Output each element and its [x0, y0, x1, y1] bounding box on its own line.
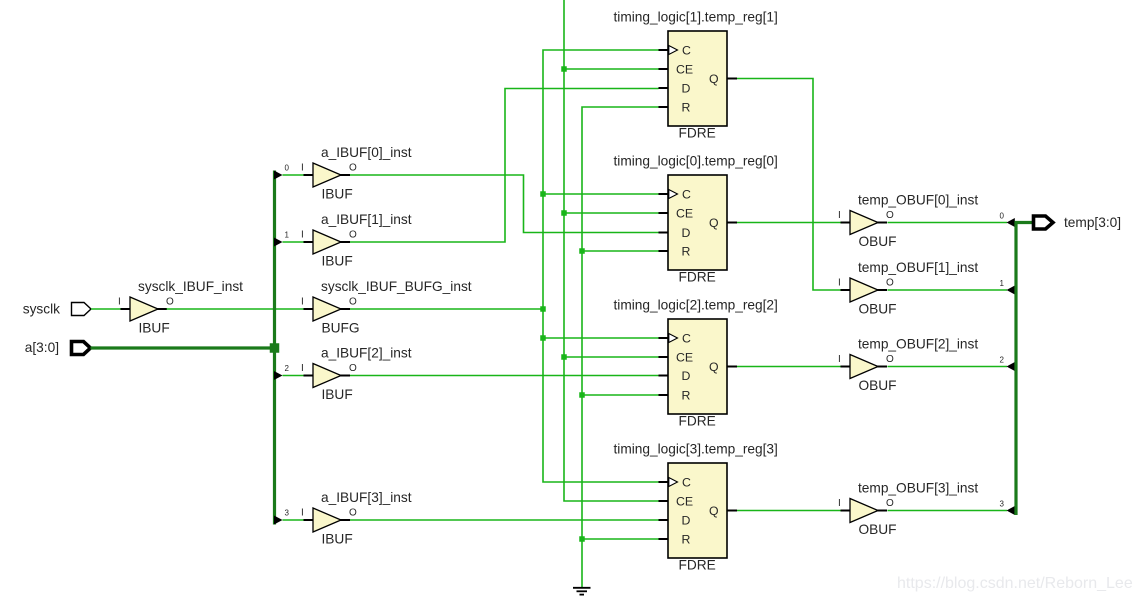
svg-text:timing_logic[2].temp_reg[2]: timing_logic[2].temp_reg[2]	[614, 298, 778, 313]
svg-text:temp_OBUF[3]_inst: temp_OBUF[3]_inst	[858, 481, 978, 496]
svg-text:FDRE: FDRE	[679, 414, 716, 429]
svg-text:D: D	[682, 514, 691, 528]
svg-text:Q: Q	[709, 360, 719, 374]
wire OBUF[2] output to temp bus tap	[888, 366, 1008, 368]
svg-text:FDRE: FDRE	[679, 558, 716, 573]
svg-text:D: D	[682, 82, 691, 96]
junction R3	[579, 536, 585, 542]
buffer temp_OBUF[0]_inst (OBUF)	[838, 193, 978, 250]
flip-flop timing_logic[1].temp_reg[1] (FDRE)	[614, 10, 778, 141]
svg-text:O: O	[349, 163, 357, 174]
svg-text:sysclk_IBUF_inst: sysclk_IBUF_inst	[138, 279, 243, 294]
svg-text:D: D	[682, 226, 691, 240]
wire a[0] tap to IBUF input	[283, 174, 304, 176]
svg-text:Q: Q	[709, 216, 719, 230]
buffer a_IBUF[0]_inst (IBUF)	[301, 145, 412, 202]
svg-text:R: R	[682, 533, 691, 547]
buffer a_IBUF[2]_inst (IBUF)	[301, 346, 412, 403]
wire BUFG output to clock net	[350, 308, 543, 310]
wire a_IBUF[1] output to D of temp_reg[1]	[350, 89, 659, 243]
wire R branch to R of temp_reg[3]	[582, 538, 659, 540]
svg-text:O: O	[349, 508, 357, 519]
svg-text:O: O	[349, 297, 357, 308]
svg-text:0: 0	[285, 164, 290, 173]
svg-text:I: I	[118, 297, 121, 308]
junction CE1	[561, 66, 567, 72]
svg-text:I: I	[301, 508, 304, 519]
wire R net vertical to ground	[582, 107, 659, 587]
svg-text:BUFG: BUFG	[322, 321, 360, 336]
svg-text:a_IBUF[2]_inst: a_IBUF[2]_inst	[321, 346, 412, 361]
buffer temp_OBUF[2]_inst (OBUF)	[838, 337, 978, 394]
flip-flop timing_logic[0].temp_reg[0] (FDRE)	[614, 154, 778, 285]
wire sysclk port to sysclk_IBUF input	[91, 308, 122, 310]
svg-text:I: I	[838, 354, 841, 365]
junction CE2	[561, 354, 567, 360]
watermark	[897, 575, 1133, 592]
svg-text:OBUF: OBUF	[859, 522, 897, 537]
ground symbol	[573, 588, 591, 595]
svg-text:a_IBUF[0]_inst: a_IBUF[0]_inst	[321, 145, 412, 160]
svg-text:temp_OBUF[2]_inst: temp_OBUF[2]_inst	[858, 337, 978, 352]
svg-text:a[3:0]: a[3:0]	[25, 340, 59, 355]
svg-text:O: O	[886, 354, 894, 365]
svg-text:C: C	[682, 332, 691, 346]
svg-text:O: O	[886, 210, 894, 221]
svg-text:I: I	[301, 297, 304, 308]
svg-text:O: O	[886, 278, 894, 289]
svg-text:temp_OBUF[0]_inst: temp_OBUF[0]_inst	[858, 193, 978, 208]
buffer sysclk_IBUF_inst (IBUF)	[118, 279, 243, 336]
svg-text:1: 1	[285, 231, 290, 240]
wire CE branch to CE of temp_reg[0]	[564, 212, 659, 214]
svg-text:CE: CE	[676, 351, 693, 365]
buffer a_IBUF[1]_inst (IBUF)	[301, 212, 412, 269]
svg-text:temp_OBUF[1]_inst: temp_OBUF[1]_inst	[858, 260, 978, 275]
buffer temp_OBUF[1]_inst (OBUF)	[838, 260, 978, 317]
buffer temp_OBUF[3]_inst (OBUF)	[838, 481, 978, 538]
svg-text:FDRE: FDRE	[679, 126, 716, 141]
bus tap a[3]	[274, 509, 290, 525]
output port temp[3:0]	[1034, 215, 1122, 230]
bus temp[3:0] horizontal to port	[1015, 221, 1034, 224]
wire Q of temp_reg[3] to OBUF[3] input	[737, 510, 841, 512]
svg-text:timing_logic[0].temp_reg[0]: timing_logic[0].temp_reg[0]	[614, 154, 778, 169]
buffer a_IBUF[3]_inst (IBUF)	[301, 490, 412, 547]
svg-text:OBUF: OBUF	[859, 234, 897, 249]
wire Q of temp_reg[2] to OBUF[2] input	[737, 366, 841, 368]
wire a_IBUF[3] output to D of temp_reg[3]	[350, 519, 659, 521]
svg-text:I: I	[301, 163, 304, 174]
wire OBUF[1] output to temp bus tap	[888, 289, 1008, 291]
wire a_IBUF[2] output to D of temp_reg[2]	[350, 375, 659, 377]
svg-text:a_IBUF[3]_inst: a_IBUF[3]_inst	[321, 490, 412, 505]
wire CE branch to CE of temp_reg[2]	[564, 356, 659, 358]
svg-text:OBUF: OBUF	[859, 378, 897, 393]
wire Q of temp_reg[0] to OBUF[0] input	[737, 222, 841, 224]
wire CE net vertical from top edge	[564, 0, 659, 501]
bus tap a[1]	[274, 231, 290, 247]
svg-text:D: D	[682, 369, 691, 383]
wire clock branch to C of temp_reg[0]	[543, 193, 659, 195]
flip-flop timing_logic[3].temp_reg[3] (FDRE)	[614, 442, 778, 573]
svg-text:timing_logic[1].temp_reg[1]: timing_logic[1].temp_reg[1]	[614, 10, 778, 25]
junction clock/C0	[540, 191, 546, 197]
svg-text:sysclk_IBUF_BUFG_inst: sysclk_IBUF_BUFG_inst	[321, 279, 472, 294]
bus tap temp[2]	[1000, 356, 1015, 372]
svg-text:2: 2	[1000, 356, 1005, 365]
junction clock/C2	[540, 335, 546, 341]
wire R branch to R of temp_reg[0]	[582, 250, 659, 252]
svg-text:a_IBUF[1]_inst: a_IBUF[1]_inst	[321, 212, 412, 227]
svg-text:C: C	[682, 188, 691, 202]
junction CE0	[561, 210, 567, 216]
junction clock/BUFG	[540, 306, 546, 312]
svg-text:I: I	[838, 210, 841, 221]
svg-text:CE: CE	[676, 495, 693, 509]
svg-text:sysclk: sysclk	[23, 302, 60, 317]
bus tap temp[3]	[1000, 500, 1015, 516]
wire a_IBUF[0] output to D of temp_reg[0]	[350, 175, 659, 233]
svg-text:Q: Q	[709, 72, 719, 86]
svg-text:O: O	[886, 498, 894, 509]
bus a[3:0] horizontal	[91, 346, 277, 349]
wire R branch to R of temp_reg[2]	[582, 394, 659, 396]
junction a bus	[270, 343, 280, 353]
svg-text:R: R	[682, 245, 691, 259]
wire clock net vertical with top/bottom branches to C pins	[543, 50, 659, 482]
svg-text:temp[3:0]: temp[3:0]	[1064, 215, 1121, 230]
svg-text:0: 0	[1000, 212, 1005, 221]
svg-text:O: O	[349, 230, 357, 241]
bus a[3:0] vertical	[273, 171, 276, 525]
input port a[3:0]	[25, 340, 91, 355]
buffer sysclk_IBUF_BUFG_inst (BUFG)	[301, 279, 472, 336]
wire sysclk_IBUF output to BUFG input	[167, 308, 304, 310]
svg-text:IBUF: IBUF	[322, 187, 353, 202]
wire CE branch to CE of temp_reg[1]	[564, 68, 659, 70]
svg-text:1: 1	[1000, 279, 1005, 288]
svg-text:https://blog.csdn.net/Reborn_L: https://blog.csdn.net/Reborn_Lee	[897, 575, 1133, 592]
svg-text:IBUF: IBUF	[322, 254, 353, 269]
wire OBUF[0] output to temp bus tap	[888, 222, 1008, 224]
junction R2	[579, 392, 585, 398]
wire a[2] tap to IBUF input	[283, 375, 304, 377]
svg-text:C: C	[682, 476, 691, 490]
junction R0	[579, 248, 585, 254]
wire a[3] tap to IBUF input	[283, 519, 304, 521]
wire clock branch to C of temp_reg[2]	[543, 337, 659, 339]
bus temp[3:0] vertical	[1014, 221, 1017, 515]
svg-text:R: R	[682, 101, 691, 115]
svg-text:OBUF: OBUF	[859, 302, 897, 317]
svg-text:3: 3	[285, 509, 290, 518]
svg-text:CE: CE	[676, 63, 693, 77]
svg-text:IBUF: IBUF	[139, 321, 170, 336]
svg-text:CE: CE	[676, 207, 693, 221]
svg-text:FDRE: FDRE	[679, 270, 716, 285]
input port sysclk	[23, 302, 91, 317]
svg-text:Q: Q	[709, 504, 719, 518]
svg-text:I: I	[838, 278, 841, 289]
svg-text:IBUF: IBUF	[322, 532, 353, 547]
svg-text:R: R	[682, 389, 691, 403]
svg-text:2: 2	[285, 364, 290, 373]
svg-text:I: I	[838, 498, 841, 509]
wire OBUF[3] output to temp bus tap	[888, 510, 1008, 512]
svg-text:I: I	[301, 230, 304, 241]
svg-text:timing_logic[3].temp_reg[3]: timing_logic[3].temp_reg[3]	[614, 442, 778, 457]
wire Q of temp_reg[1] to OBUF[1] input	[737, 79, 841, 291]
svg-text:3: 3	[1000, 500, 1005, 509]
bus tap temp[0]	[1000, 212, 1015, 228]
bus tap temp[1]	[1000, 279, 1015, 295]
flip-flop timing_logic[2].temp_reg[2] (FDRE)	[614, 298, 778, 429]
svg-text:IBUF: IBUF	[322, 387, 353, 402]
svg-text:C: C	[682, 44, 691, 58]
svg-text:I: I	[301, 363, 304, 374]
bus tap a[0]	[274, 164, 290, 180]
bus tap a[2]	[274, 364, 290, 380]
svg-text:O: O	[166, 297, 174, 308]
svg-text:O: O	[349, 363, 357, 374]
wire a[1] tap to IBUF input	[283, 241, 304, 243]
